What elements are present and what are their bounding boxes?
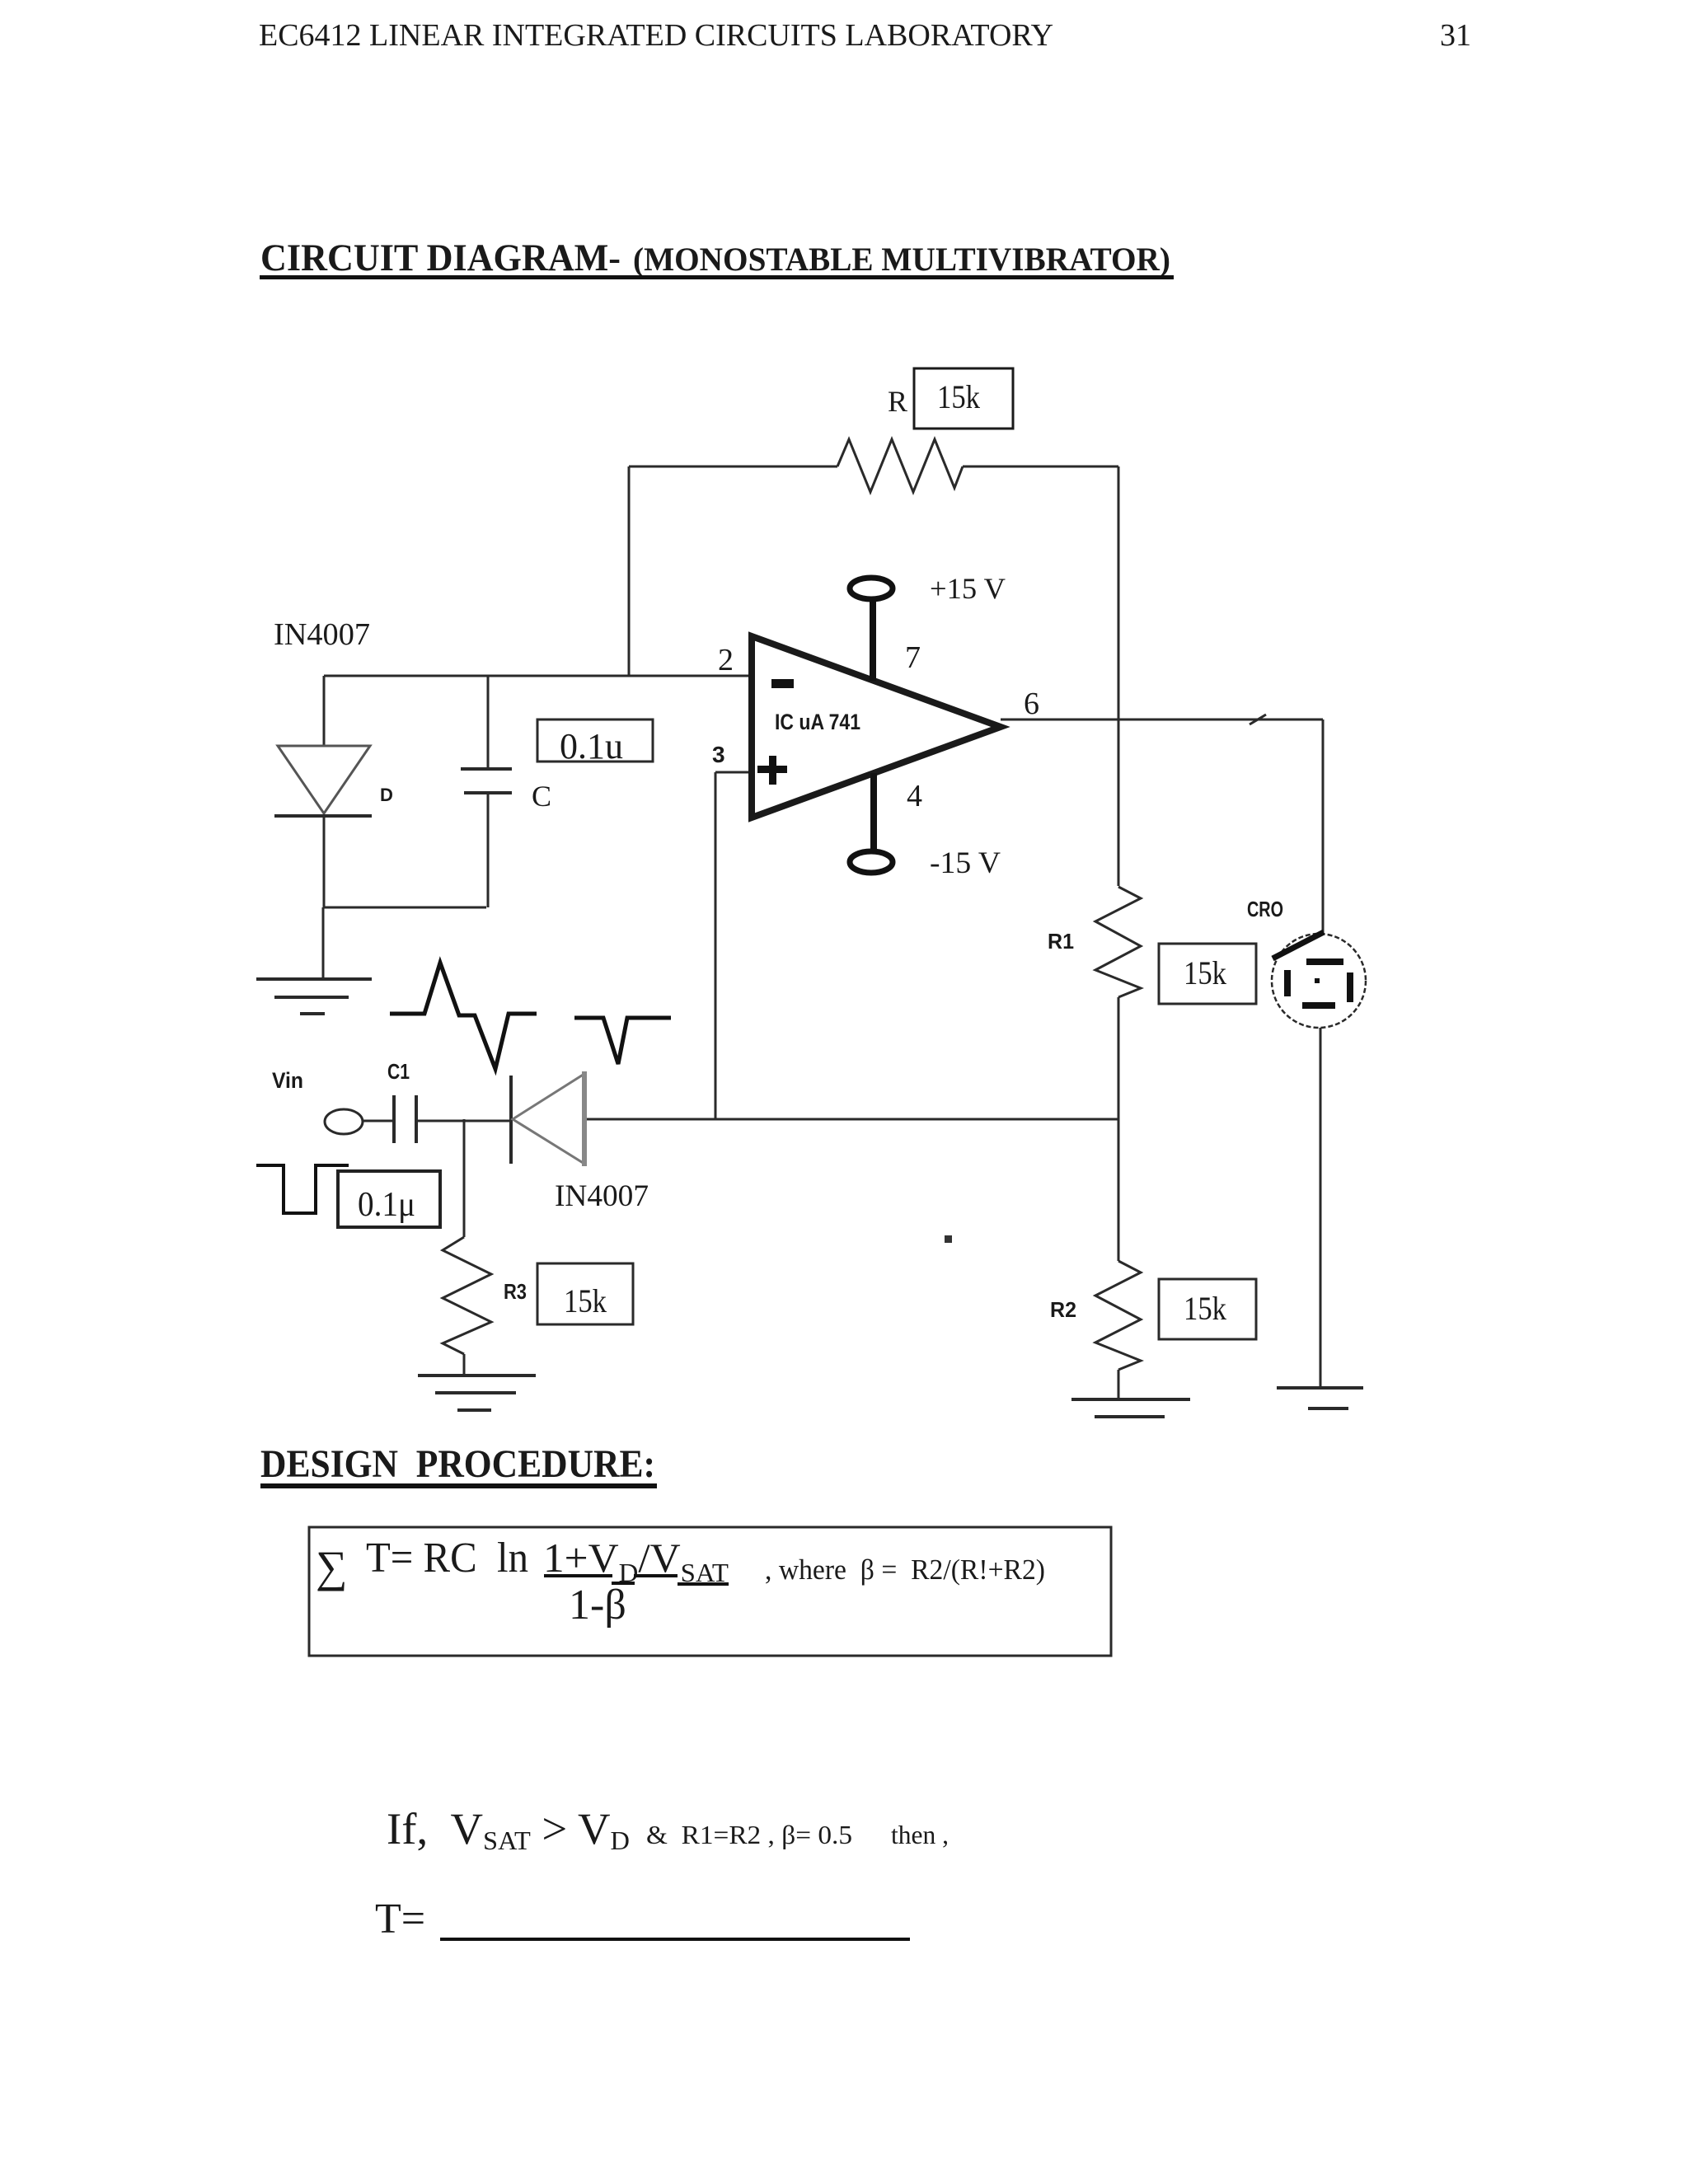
svg-text:31: 31 bbox=[1440, 18, 1471, 53]
svg-text:0.1μ: 0.1μ bbox=[358, 1186, 415, 1224]
svg-text:EC6412 LINEAR INTEGRATED CIRCU: EC6412 LINEAR INTEGRATED CIRCUITS LABORA… bbox=[259, 18, 1053, 53]
svg-text:+15 V: +15 V bbox=[930, 572, 1006, 605]
svg-text:CIRCUIT DIAGRAM-: CIRCUIT DIAGRAM- bbox=[260, 237, 621, 279]
svg-text:CRO: CRO bbox=[1247, 897, 1283, 921]
svg-text:IN4007: IN4007 bbox=[274, 617, 370, 652]
svg-text:, where β = R2/(R!+R2): , where β = R2/(R!+R2) bbox=[765, 1554, 1045, 1586]
svg-text:T=: T= bbox=[375, 1896, 425, 1943]
svg-text:C: C bbox=[532, 780, 551, 813]
svg-text:7: 7 bbox=[905, 640, 921, 675]
svg-text:-15 V: -15 V bbox=[930, 846, 1001, 880]
svg-text:C1: C1 bbox=[387, 1059, 410, 1084]
svg-text:(MONOSTABLE MULTIVIBRATOR): (MONOSTABLE MULTIVIBRATOR) bbox=[633, 241, 1170, 278]
svg-text:then ,: then , bbox=[891, 1820, 949, 1849]
svg-text:Vin: Vin bbox=[272, 1068, 303, 1093]
svg-text:2: 2 bbox=[718, 643, 734, 677]
svg-text:& R1=R2 , β= 0.5: & R1=R2 , β= 0.5 bbox=[646, 1820, 852, 1849]
svg-text:∑: ∑ bbox=[316, 1542, 348, 1591]
svg-text:15k: 15k bbox=[1184, 1290, 1226, 1327]
svg-text:3: 3 bbox=[712, 742, 725, 767]
svg-text:15k: 15k bbox=[937, 378, 980, 415]
svg-text:1-β: 1-β bbox=[569, 1582, 626, 1629]
svg-text:4: 4 bbox=[907, 779, 922, 813]
svg-text:D: D bbox=[380, 785, 393, 805]
svg-text:IN4007: IN4007 bbox=[555, 1179, 649, 1213]
svg-text:DESIGN PROCEDURE:: DESIGN PROCEDURE: bbox=[260, 1442, 655, 1486]
svg-text:T= RC ln: T= RC ln bbox=[366, 1535, 528, 1582]
svg-text:6: 6 bbox=[1024, 687, 1039, 721]
svg-text:R2: R2 bbox=[1050, 1297, 1076, 1322]
svg-text:R3: R3 bbox=[504, 1279, 527, 1304]
svg-text:IC uA 741: IC uA 741 bbox=[775, 710, 860, 734]
svg-text:R1: R1 bbox=[1048, 929, 1074, 954]
svg-text:15k: 15k bbox=[1184, 954, 1226, 991]
svg-text:R: R bbox=[888, 385, 907, 418]
svg-text:15k: 15k bbox=[564, 1282, 607, 1319]
svg-text:0.1u: 0.1u bbox=[560, 726, 623, 766]
